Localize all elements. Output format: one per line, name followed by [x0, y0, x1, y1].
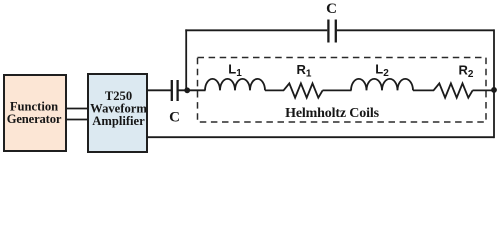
block: Function Generator: [4, 75, 66, 151]
svg-text:R1: R1: [297, 62, 312, 80]
svg-text:Amplifier: Amplifier: [92, 114, 145, 128]
wire: L2 to R2: [413, 89, 434, 91]
wire: generator to amplifier (upper lead): [66, 108, 88, 110]
resistor R2: [434, 63, 474, 98]
inductor L1: [205, 62, 265, 91]
svg-text:L1: L1: [228, 62, 242, 80]
wire: right drop from top branch to bottom return: [493, 29, 495, 138]
node: junction after series capacitor: [184, 87, 190, 93]
svg-text:L2: L2: [375, 62, 389, 80]
enclosure: Helmholtz Coils (dashed box): [198, 58, 487, 123]
node: right junction: [491, 87, 497, 93]
capacitor C (series): [169, 80, 180, 126]
wire: generator to amplifier (lower lead): [66, 119, 88, 121]
wire: L1 to R1: [265, 89, 284, 91]
svg-text:Helmholtz Coils: Helmholtz Coils: [285, 106, 379, 121]
wire: left riser to top branch: [185, 29, 187, 91]
wire: amplifier output to capacitor C: [147, 89, 171, 91]
capacitor C (parallel, top): [326, 1, 337, 43]
inductor L2: [351, 62, 413, 91]
svg-text:R2: R2: [459, 63, 474, 81]
svg-text:Generator: Generator: [7, 112, 62, 126]
block: T250 Waveform Amplifier: [88, 74, 147, 152]
svg-text:C: C: [169, 110, 180, 126]
resistor R1: [284, 62, 323, 98]
wire: R1 to L2: [323, 89, 352, 91]
svg-text:C: C: [326, 1, 337, 17]
wire: capacitor C to L1: [179, 89, 206, 91]
wire: bottom return to amplifier: [147, 136, 495, 138]
wire: top branch left segment: [185, 29, 327, 31]
wire: R2 to right junction: [473, 89, 495, 91]
wire: top branch right segment: [337, 29, 495, 31]
